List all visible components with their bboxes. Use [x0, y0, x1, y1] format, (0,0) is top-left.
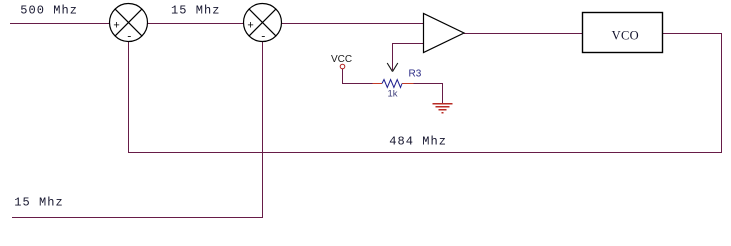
svg-text:VCC: VCC: [331, 54, 352, 65]
svg-text:484 Mhz: 484 Mhz: [389, 134, 447, 148]
svg-text:+: +: [247, 21, 254, 33]
svg-text:+: +: [113, 21, 120, 33]
svg-text:-: -: [260, 31, 267, 43]
svg-text:R3: R3: [409, 69, 422, 80]
svg-text:-: -: [126, 31, 133, 43]
svg-text:15 Mhz: 15 Mhz: [14, 196, 64, 210]
svg-text:1k: 1k: [388, 89, 398, 100]
svg-text:15 Mhz: 15 Mhz: [171, 4, 221, 18]
svg-text:VCO: VCO: [612, 29, 639, 43]
svg-text:500 Mhz: 500 Mhz: [20, 4, 78, 18]
